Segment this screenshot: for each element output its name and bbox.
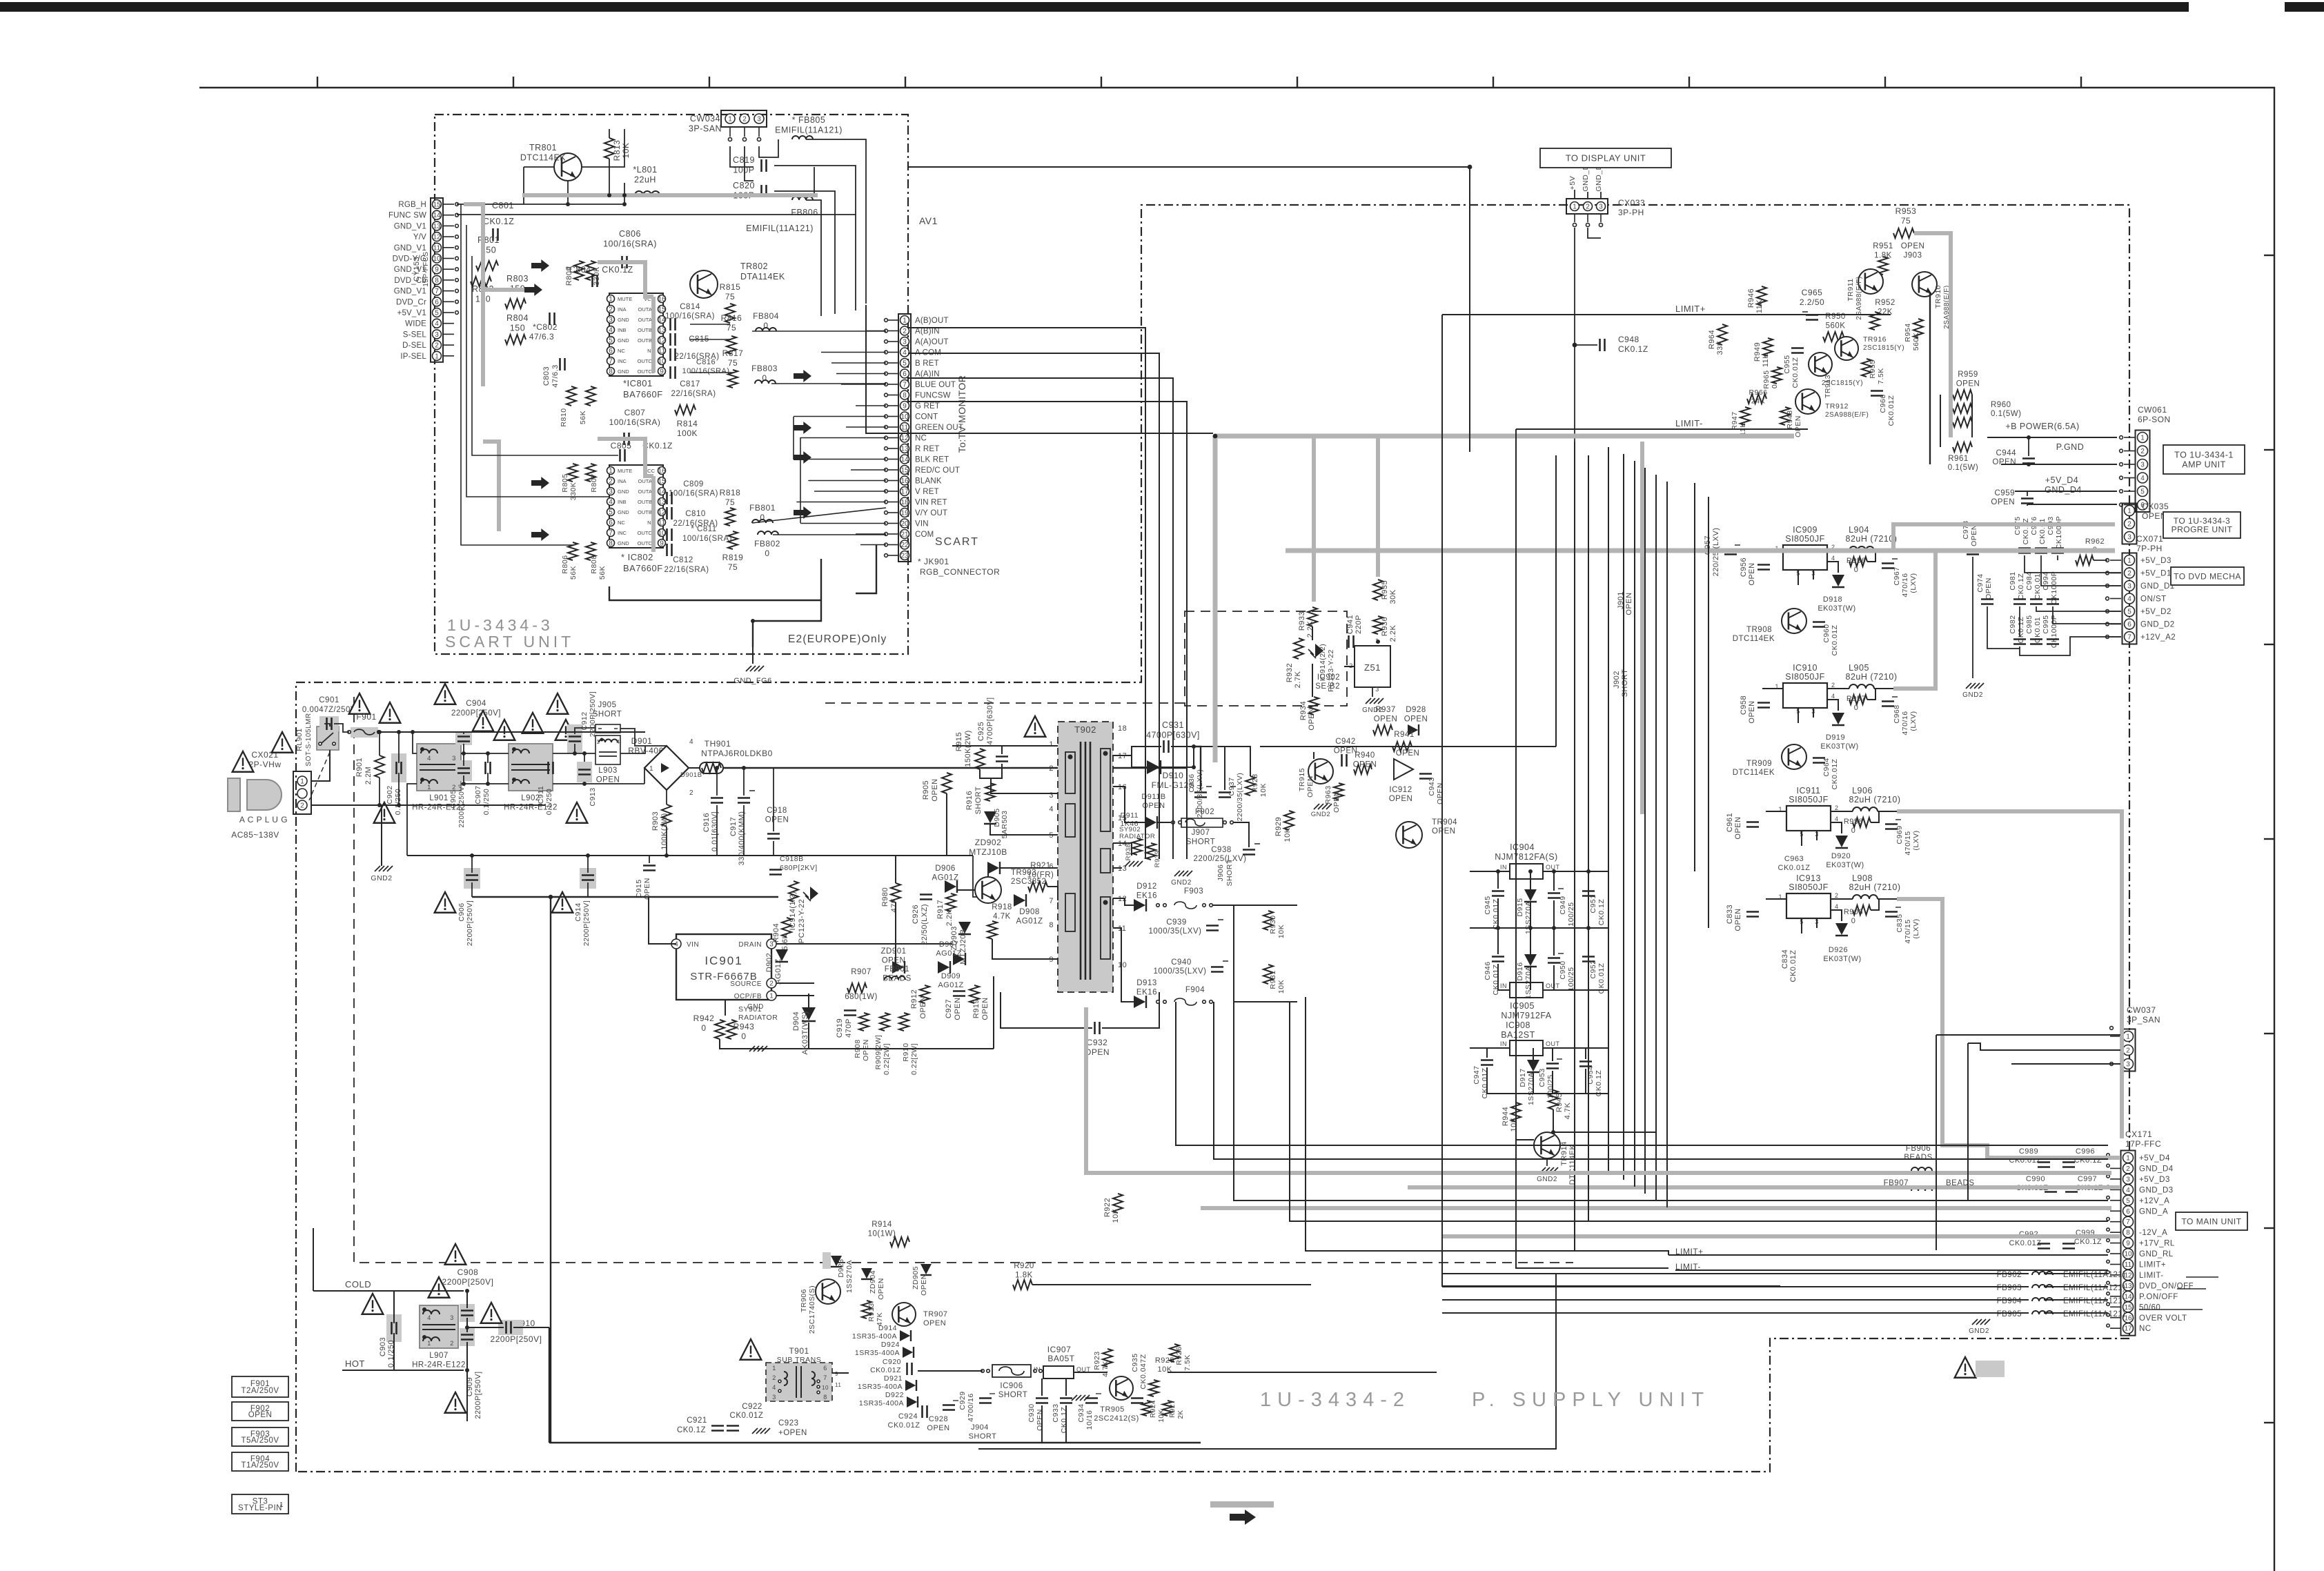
svg-text:L906: L906	[1852, 786, 1873, 796]
resistor R945 4.7K	[1548, 1090, 1558, 1109]
transistor TR904 OPEN	[1396, 822, 1422, 848]
capacitor C955 CK0.01Z	[1791, 347, 1804, 349]
svg-text:C927: C927	[945, 999, 953, 1018]
svg-text:13: 13	[900, 446, 909, 453]
svg-text:680P[2KV]: 680P[2KV]	[780, 864, 818, 872]
svg-text:2200/35(LXV): 2200/35(LXV)	[1236, 773, 1244, 822]
svg-text:17P-FFC: 17P-FFC	[2125, 1139, 2161, 1149]
svg-text:EMIFIL(11A121): EMIFIL(11A121)	[2063, 1310, 2126, 1318]
svg-text:1SS270A: 1SS270A	[1527, 1072, 1535, 1105]
svg-text:C989: C989	[2019, 1147, 2038, 1156]
svg-text:CK0.1Z: CK0.1Z	[677, 1426, 706, 1434]
wire IC801 outputs to resistors	[690, 324, 730, 325]
wire long vertical bundle left of regulators	[1145, 442, 1146, 859]
svg-text:1SR35-400A: 1SR35-400A	[855, 1349, 900, 1357]
svg-text:S-SEL: S-SEL	[403, 330, 427, 339]
svg-text:10K: 10K	[621, 143, 631, 159]
svg-text:RADIATOR: RADIATOR	[1119, 833, 1155, 840]
svg-text:TR908: TR908	[1746, 626, 1772, 634]
svg-text:3: 3	[435, 331, 439, 339]
svg-text:15: 15	[433, 201, 441, 209]
svg-text:OPEN: OPEN	[1396, 749, 1420, 758]
svg-text:CK0.01: CK0.01	[2038, 518, 2047, 544]
svg-text:TR802: TR802	[740, 261, 768, 271]
svg-text:C903: C903	[379, 1337, 387, 1356]
svg-text:R943: R943	[733, 1022, 755, 1031]
ferrite bead FB806 EMIFIL(11A121)	[792, 197, 813, 200]
svg-text:OPEN: OPEN	[1625, 592, 1633, 615]
resistor R966 24K	[1747, 394, 1766, 404]
svg-text:Y/V: Y/V	[413, 233, 426, 241]
resistors R938 R939	[1132, 838, 1142, 855]
svg-text:2SC1815(Y): 2SC1815(Y)	[1822, 379, 1863, 387]
svg-text:R935: R935	[1381, 580, 1389, 600]
svg-text:C947: C947	[1473, 1065, 1481, 1084]
svg-text:82uH (7210): 82uH (7210)	[1846, 534, 1898, 544]
wire c932	[1001, 992, 1092, 1028]
svg-text:OPEN: OPEN	[596, 776, 620, 784]
svg-text:R945: R945	[1555, 1093, 1564, 1112]
svg-text:47K: 47K	[890, 898, 898, 912]
svg-text:OUT: OUT	[1546, 982, 1560, 989]
svg-text:22uH: 22uH	[634, 175, 656, 185]
svg-text:2: 2	[609, 306, 613, 314]
svg-text:2SC2412(S): 2SC2412(S)	[1094, 1414, 1139, 1423]
IC IC901 STR-F6667B	[676, 934, 771, 1000]
diode reg	[1835, 923, 1848, 935]
svg-text:+5V: +5V	[1568, 176, 1577, 190]
capacitor C913	[577, 762, 592, 782]
svg-text:*L801: *L801	[633, 165, 657, 175]
resistor R808 56K	[586, 542, 595, 560]
boxed label TO DISPLAY UNIT	[1540, 148, 1671, 168]
svg-text:OPEN: OPEN	[1985, 577, 1993, 600]
svg-text:C958: C958	[1740, 695, 1748, 715]
capacitor C933 CK0.1Z	[1060, 1397, 1072, 1399]
svg-text:GND_V1: GND_V1	[394, 244, 426, 253]
svg-text:2: 2	[1586, 204, 1590, 211]
svg-text:D920: D920	[1831, 852, 1851, 860]
transistor TR905 2SC2412(S)	[1110, 1376, 1133, 1400]
svg-text:D913: D913	[1136, 979, 1157, 987]
svg-text:BLANK: BLANK	[915, 477, 942, 486]
wire j904 long run	[978, 1274, 1556, 1449]
svg-text:8: 8	[609, 540, 613, 548]
svg-text:P. SUPPLY UNIT: P. SUPPLY UNIT	[1472, 1389, 1710, 1411]
resistor R943 0	[727, 1020, 736, 1039]
svg-text:D923: D923	[837, 1258, 845, 1277]
svg-text:FB801: FB801	[749, 503, 776, 513]
svg-text:OPEN: OPEN	[1436, 782, 1444, 804]
svg-text:C913: C913	[589, 787, 597, 806]
svg-text:OPEN: OPEN	[248, 1411, 273, 1419]
svg-text:3P-PH: 3P-PH	[1618, 208, 1644, 217]
svg-text:0.1(5W): 0.1(5W)	[1948, 464, 1978, 472]
svg-text:OPEN: OPEN	[1036, 1409, 1044, 1431]
capacitor C964 CK0.01Z	[1813, 757, 1825, 759]
capacitor C932 OPEN	[1094, 1022, 1096, 1034]
svg-text:OPEN: OPEN	[920, 1274, 928, 1296]
svg-text:1: 1	[427, 1340, 431, 1347]
svg-text:GND2: GND2	[1962, 691, 1983, 699]
svg-text:R815: R815	[720, 282, 741, 292]
transistor TR909 DTC114EK	[1782, 744, 1806, 769]
svg-text:6: 6	[2126, 1208, 2130, 1216]
svg-text:(LXV): (LXV)	[1912, 918, 1920, 938]
svg-text:OPEN: OPEN	[1734, 908, 1742, 931]
svg-text:FB904: FB904	[1997, 1297, 2022, 1305]
svg-text:560K: 560K	[1912, 333, 1920, 351]
svg-text:56K: 56K	[598, 566, 607, 580]
svg-text:GND_FG6: GND_FG6	[733, 677, 771, 685]
svg-text:DVD_Cr: DVD_Cr	[396, 298, 426, 306]
ground t901	[752, 1428, 758, 1434]
svg-text:MUTE: MUTE	[618, 296, 632, 302]
svg-text:2SC1815(Y): 2SC1815(Y)	[1863, 344, 1904, 352]
svg-text:7.5K: 7.5K	[1877, 368, 1885, 384]
svg-text:C932: C932	[1087, 1038, 1108, 1047]
svg-text:1: 1	[609, 468, 613, 475]
svg-text:R957: R957	[1847, 695, 1866, 703]
svg-text:10K: 10K	[1259, 783, 1268, 797]
svg-text:1: 1	[903, 317, 907, 325]
svg-text:IP-SEL: IP-SEL	[400, 353, 426, 361]
svg-text:PC123-Y-22: PC123-Y-22	[1327, 649, 1335, 692]
svg-text:R919: R919	[972, 999, 981, 1018]
zener ZD903 MTZJ20B	[958, 922, 971, 933]
svg-text:D916: D916	[1516, 962, 1524, 980]
svg-text:9: 9	[2126, 1240, 2130, 1247]
svg-text:1: 1	[427, 784, 431, 791]
svg-text:75: 75	[728, 562, 738, 572]
svg-text:OPEN: OPEN	[1334, 747, 1358, 755]
svg-text:SI8050JF: SI8050JF	[1785, 534, 1825, 544]
svg-text:0.0047Z/250V: 0.0047Z/250V	[302, 706, 356, 714]
svg-text:1SR35-400A: 1SR35-400A	[858, 1383, 903, 1391]
svg-text:IC909: IC909	[1793, 525, 1818, 535]
svg-text:C914: C914	[574, 902, 582, 921]
ground GND2	[375, 866, 380, 871]
svg-text:R901: R901	[355, 758, 364, 777]
svg-text:10: 10	[658, 530, 666, 537]
svg-text:12: 12	[900, 435, 909, 442]
svg-text:2: 2	[769, 980, 774, 988]
svg-text:OCP/FB: OCP/FB	[734, 993, 762, 1000]
svg-text:OPEN: OPEN	[1432, 827, 1456, 836]
wire scart bottom	[609, 586, 821, 600]
svg-text:R912: R912	[910, 989, 918, 1009]
optocoupler IC914(2/2) PC123-Y-22 led	[1294, 638, 1303, 659]
svg-text:C990: C990	[2026, 1175, 2045, 1183]
svg-text:T902: T902	[1074, 724, 1096, 735]
svg-text:D906: D906	[935, 864, 956, 873]
svg-text:GND_D: GND_D	[1595, 164, 1603, 191]
IC IC910 SI8050JF	[1783, 683, 1827, 708]
svg-text:0: 0	[765, 549, 769, 558]
svg-text:470P: 470P	[845, 1018, 853, 1038]
svg-text:R806: R806	[561, 555, 569, 573]
svg-text:C902: C902	[386, 785, 394, 804]
svg-text:C961: C961	[1726, 813, 1734, 832]
svg-text:2200P[250V]: 2200P[250V]	[442, 1277, 494, 1287]
svg-text:0: 0	[701, 1023, 706, 1033]
svg-text:OPEN: OPEN	[981, 997, 989, 1020]
warning triangle T902	[1025, 716, 1046, 737]
svg-text:C820: C820	[733, 181, 755, 190]
svg-text:1SS270A: 1SS270A	[845, 1260, 854, 1293]
svg-text:3: 3	[2127, 534, 2131, 542]
svg-text:DTA114EK: DTA114EK	[740, 272, 785, 281]
svg-text:R964: R964	[1708, 330, 1716, 349]
svg-text:FB804: FB804	[753, 311, 779, 321]
svg-text:11: 11	[658, 348, 666, 355]
svg-text:EK16: EK16	[1136, 989, 1157, 997]
svg-text:OPEN: OPEN	[1956, 380, 1980, 388]
capacitor C906 2200P[250V]	[464, 868, 480, 889]
svg-text:OPEN: OPEN	[1748, 700, 1756, 723]
svg-text:+5V_D3: +5V_D3	[2140, 557, 2172, 565]
svg-text:OPEN: OPEN	[1374, 715, 1398, 724]
svg-text:+12V_A: +12V_A	[2139, 1197, 2169, 1205]
svg-text:C812: C812	[673, 556, 693, 564]
connector CW034 3P-SAN	[721, 110, 767, 127]
svg-text:R932: R932	[1286, 663, 1294, 682]
resistor R805 330K	[568, 464, 578, 482]
svg-text:11: 11	[901, 424, 909, 432]
svg-text:100/16(SRA): 100/16(SRA)	[603, 239, 657, 249]
svg-text:2: 2	[450, 1340, 454, 1347]
svg-text:CK0.01Z: CK0.01Z	[1492, 898, 1500, 929]
svg-text:GND_D2: GND_D2	[2140, 621, 2175, 629]
svg-text:C937: C937	[1228, 777, 1236, 796]
svg-text:AG01Z: AG01Z	[774, 958, 782, 984]
svg-text:R817: R817	[722, 348, 744, 358]
resistor R923 4.7K	[1103, 1349, 1112, 1367]
svg-text:16: 16	[658, 468, 666, 475]
svg-text:EMIFIL(11A121): EMIFIL(11A121)	[2063, 1297, 2126, 1305]
svg-text:R920: R920	[1014, 1262, 1034, 1270]
svg-text:INA: INA	[618, 306, 627, 313]
ground GND_FG6	[752, 647, 754, 664]
svg-text:C948: C948	[1618, 335, 1639, 344]
svg-text:CX171: CX171	[2125, 1129, 2152, 1139]
svg-text:470/15: 470/15	[1904, 831, 1912, 855]
svg-text:C939: C939	[1166, 918, 1187, 927]
wire cold/hot filter	[313, 1290, 464, 1292]
svg-text:GND_RL: GND_RL	[2139, 1250, 2174, 1258]
svg-text:470/15: 470/15	[1904, 919, 1912, 943]
resistor R913 47K	[862, 1301, 871, 1318]
wire	[774, 166, 856, 310]
resistor R928 10K	[1245, 776, 1255, 796]
overline marks cx171	[2186, 1276, 2218, 1278]
svg-text:C925: C925	[977, 722, 985, 741]
ground d911 gnd	[1125, 861, 1130, 867]
bus gray feedback drops	[1312, 436, 1316, 602]
svg-text:D912: D912	[1136, 882, 1157, 891]
svg-text:10: 10	[433, 255, 441, 263]
svg-text:4: 4	[1049, 805, 1054, 813]
fuse table F902	[232, 1402, 288, 1421]
junction dots scart	[622, 202, 627, 206]
svg-text:C929: C929	[958, 1391, 967, 1410]
svg-text:2K: 2K	[1177, 1410, 1185, 1419]
transistor TR801 DTC114EK	[554, 153, 582, 181]
transistor TR916 2SC1815(Y)	[1835, 337, 1858, 360]
svg-text:56K: 56K	[579, 411, 587, 424]
svg-text:OPEN: OPEN	[1389, 795, 1413, 803]
svg-text:IC913: IC913	[1796, 873, 1821, 883]
svg-text:22/50(LXZ): 22/50(LXZ)	[920, 904, 929, 945]
svg-text:DVD_Cb: DVD_Cb	[394, 277, 426, 285]
svg-text:OUT: OUT	[1546, 864, 1560, 871]
svg-text:NJM7912FA: NJM7912FA	[1501, 1011, 1551, 1020]
svg-text:4: 4	[772, 1384, 776, 1391]
svg-text:TR912: TR912	[1825, 402, 1849, 411]
svg-text:C934: C934	[1077, 1403, 1085, 1422]
svg-text:4: 4	[903, 349, 907, 357]
svg-text:FB901: FB901	[885, 965, 909, 974]
transformer T902	[1058, 722, 1113, 992]
wire t902 left side	[952, 745, 1058, 747]
svg-text:82uH (7210): 82uH (7210)	[1849, 882, 1901, 892]
svg-text:D917: D917	[1519, 1068, 1527, 1087]
svg-text:10K: 10K	[1277, 980, 1286, 994]
svg-text:10: 10	[1118, 961, 1127, 969]
svg-text:BA05T: BA05T	[1047, 1354, 1074, 1363]
capacitor C930 OPEN	[1036, 1397, 1048, 1399]
warning triangles ac area	[272, 732, 293, 753]
bus gray horizontal main	[1215, 434, 1794, 439]
svg-text:GND2: GND2	[1171, 879, 1192, 887]
capacitor C950 100/25	[1548, 957, 1560, 959]
svg-text:+5V_D1: +5V_D1	[2140, 570, 2172, 578]
svg-text:C915: C915	[635, 879, 643, 898]
capacitor C820 100P	[760, 185, 762, 197]
svg-text:5: 5	[435, 310, 439, 317]
svg-text:4: 4	[435, 320, 439, 328]
resistor R924 10K	[1142, 1401, 1152, 1416]
svg-text:2200P[250V]: 2200P[250V]	[451, 709, 501, 718]
svg-text:Z51: Z51	[1364, 662, 1381, 673]
svg-text:2SA988(E/F): 2SA988(E/F)	[1825, 411, 1869, 419]
svg-text:0: 0	[1854, 566, 1859, 574]
svg-text:L905: L905	[1849, 663, 1869, 673]
svg-text:+5V_V1: +5V_V1	[397, 309, 426, 317]
svg-text:A(A)OUT: A(A)OUT	[915, 338, 949, 346]
svg-text:R965: R965	[1762, 370, 1771, 388]
svg-text:IN: IN	[1034, 1366, 1041, 1373]
svg-text:C959: C959	[1995, 489, 2016, 497]
svg-text:EK03T(W): EK03T(W)	[1823, 955, 1861, 963]
svg-text:CK0.01Z: CK0.01Z	[1778, 864, 1811, 872]
svg-text:4: 4	[609, 327, 613, 335]
svg-text:3: 3	[1049, 791, 1054, 800]
svg-text:R962: R962	[2085, 537, 2105, 546]
shunt regulator IC902 SE-B2 Z51	[1355, 646, 1390, 687]
svg-text:C810: C810	[685, 510, 706, 518]
svg-text:IC914(2/2): IC914(2/2)	[1319, 644, 1327, 682]
svg-text:J904: J904	[971, 1423, 989, 1432]
svg-text:1: 1	[2126, 1034, 2130, 1041]
diode D915 1SS270A	[1524, 889, 1537, 901]
svg-text:RGB_H: RGB_H	[398, 201, 426, 209]
svg-text:9: 9	[835, 1371, 838, 1377]
svg-text:GND: GND	[618, 337, 629, 344]
svg-text:R960: R960	[1991, 401, 2011, 409]
svg-text:C814: C814	[680, 303, 700, 311]
svg-text:INA: INA	[618, 478, 627, 484]
resistor R936 2.2K	[1373, 616, 1383, 634]
svg-text:T5A/250V: T5A/250V	[241, 1436, 279, 1445]
svg-text:C953: C953	[1538, 1068, 1546, 1087]
svg-text:FUNCSW: FUNCSW	[915, 392, 951, 400]
svg-text:D901B: D901B	[680, 771, 702, 779]
svg-text:0: 0	[1854, 704, 1859, 712]
svg-text:SI8050JF: SI8050JF	[1789, 795, 1829, 804]
wire reg	[1831, 898, 1853, 900]
svg-text:R910: R910	[902, 1043, 910, 1061]
svg-text:R814: R814	[677, 419, 698, 428]
svg-text:D902: D902	[765, 953, 774, 972]
svg-text:24K: 24K	[1751, 397, 1765, 406]
svg-text:6: 6	[823, 1365, 827, 1372]
ground tr915	[1314, 804, 1319, 809]
svg-text:2.2M: 2.2M	[364, 767, 373, 784]
wire misc verticals right	[1936, 1035, 1937, 1250]
svg-text:10K: 10K	[1158, 1409, 1165, 1422]
svg-text:T1A/250V: T1A/250V	[241, 1461, 279, 1470]
transistor TR908 DTC114EK	[1782, 609, 1806, 633]
svg-text:BA7660F: BA7660F	[623, 389, 663, 399]
ground gnd2 sec	[1174, 871, 1180, 876]
svg-text:1: 1	[728, 116, 732, 123]
svg-text:AMP UNIT: AMP UNIT	[2182, 460, 2226, 470]
svg-text:C916: C916	[702, 813, 711, 832]
svg-text:75: 75	[725, 497, 735, 507]
resistor R935 30K	[1373, 580, 1383, 600]
svg-text:2200P[250V]: 2200P[250V]	[491, 1334, 542, 1344]
svg-text:13: 13	[658, 499, 666, 506]
svg-text:OPEN: OPEN	[862, 1039, 870, 1061]
svg-text:DVD-Y/G: DVD-Y/G	[393, 255, 426, 264]
wire ic904 cluster	[1470, 871, 1510, 872]
svg-text:CK0.01Z: CK0.01Z	[1831, 758, 1839, 789]
transistor TR911 2SA988(E/F)	[1858, 269, 1883, 294]
svg-text:AG01Z: AG01Z	[936, 949, 961, 958]
svg-text:CK0.1Z: CK0.1Z	[602, 265, 633, 275]
capacitor C943 OPEN	[1419, 773, 1432, 775]
svg-text:WIDE: WIDE	[405, 320, 426, 328]
svg-text:OPEN: OPEN	[923, 1319, 946, 1327]
svg-text:TR909: TR909	[1746, 760, 1772, 768]
svg-text:3: 3	[757, 116, 761, 123]
svg-text:C982: C982	[2009, 615, 2017, 633]
svg-text:2: 2	[742, 116, 747, 123]
svg-text:19: 19	[900, 510, 909, 517]
svg-text:2: 2	[609, 478, 613, 486]
svg-text:EK16: EK16	[1136, 892, 1157, 900]
svg-text:CK1000P: CK1000P	[2055, 516, 2063, 549]
svg-text:10: 10	[822, 1385, 829, 1391]
svg-text:100K: 100K	[677, 428, 698, 438]
svg-text:R RET: R RET	[915, 445, 940, 453]
AC plug	[247, 780, 282, 810]
svg-text:EMIFIL(11A121): EMIFIL(11A121)	[746, 224, 814, 233]
svg-text:R946: R946	[1747, 288, 1755, 308]
svg-text:CK0.01Z: CK0.01Z	[1831, 624, 1839, 655]
svg-text:R947: R947	[1731, 411, 1739, 430]
